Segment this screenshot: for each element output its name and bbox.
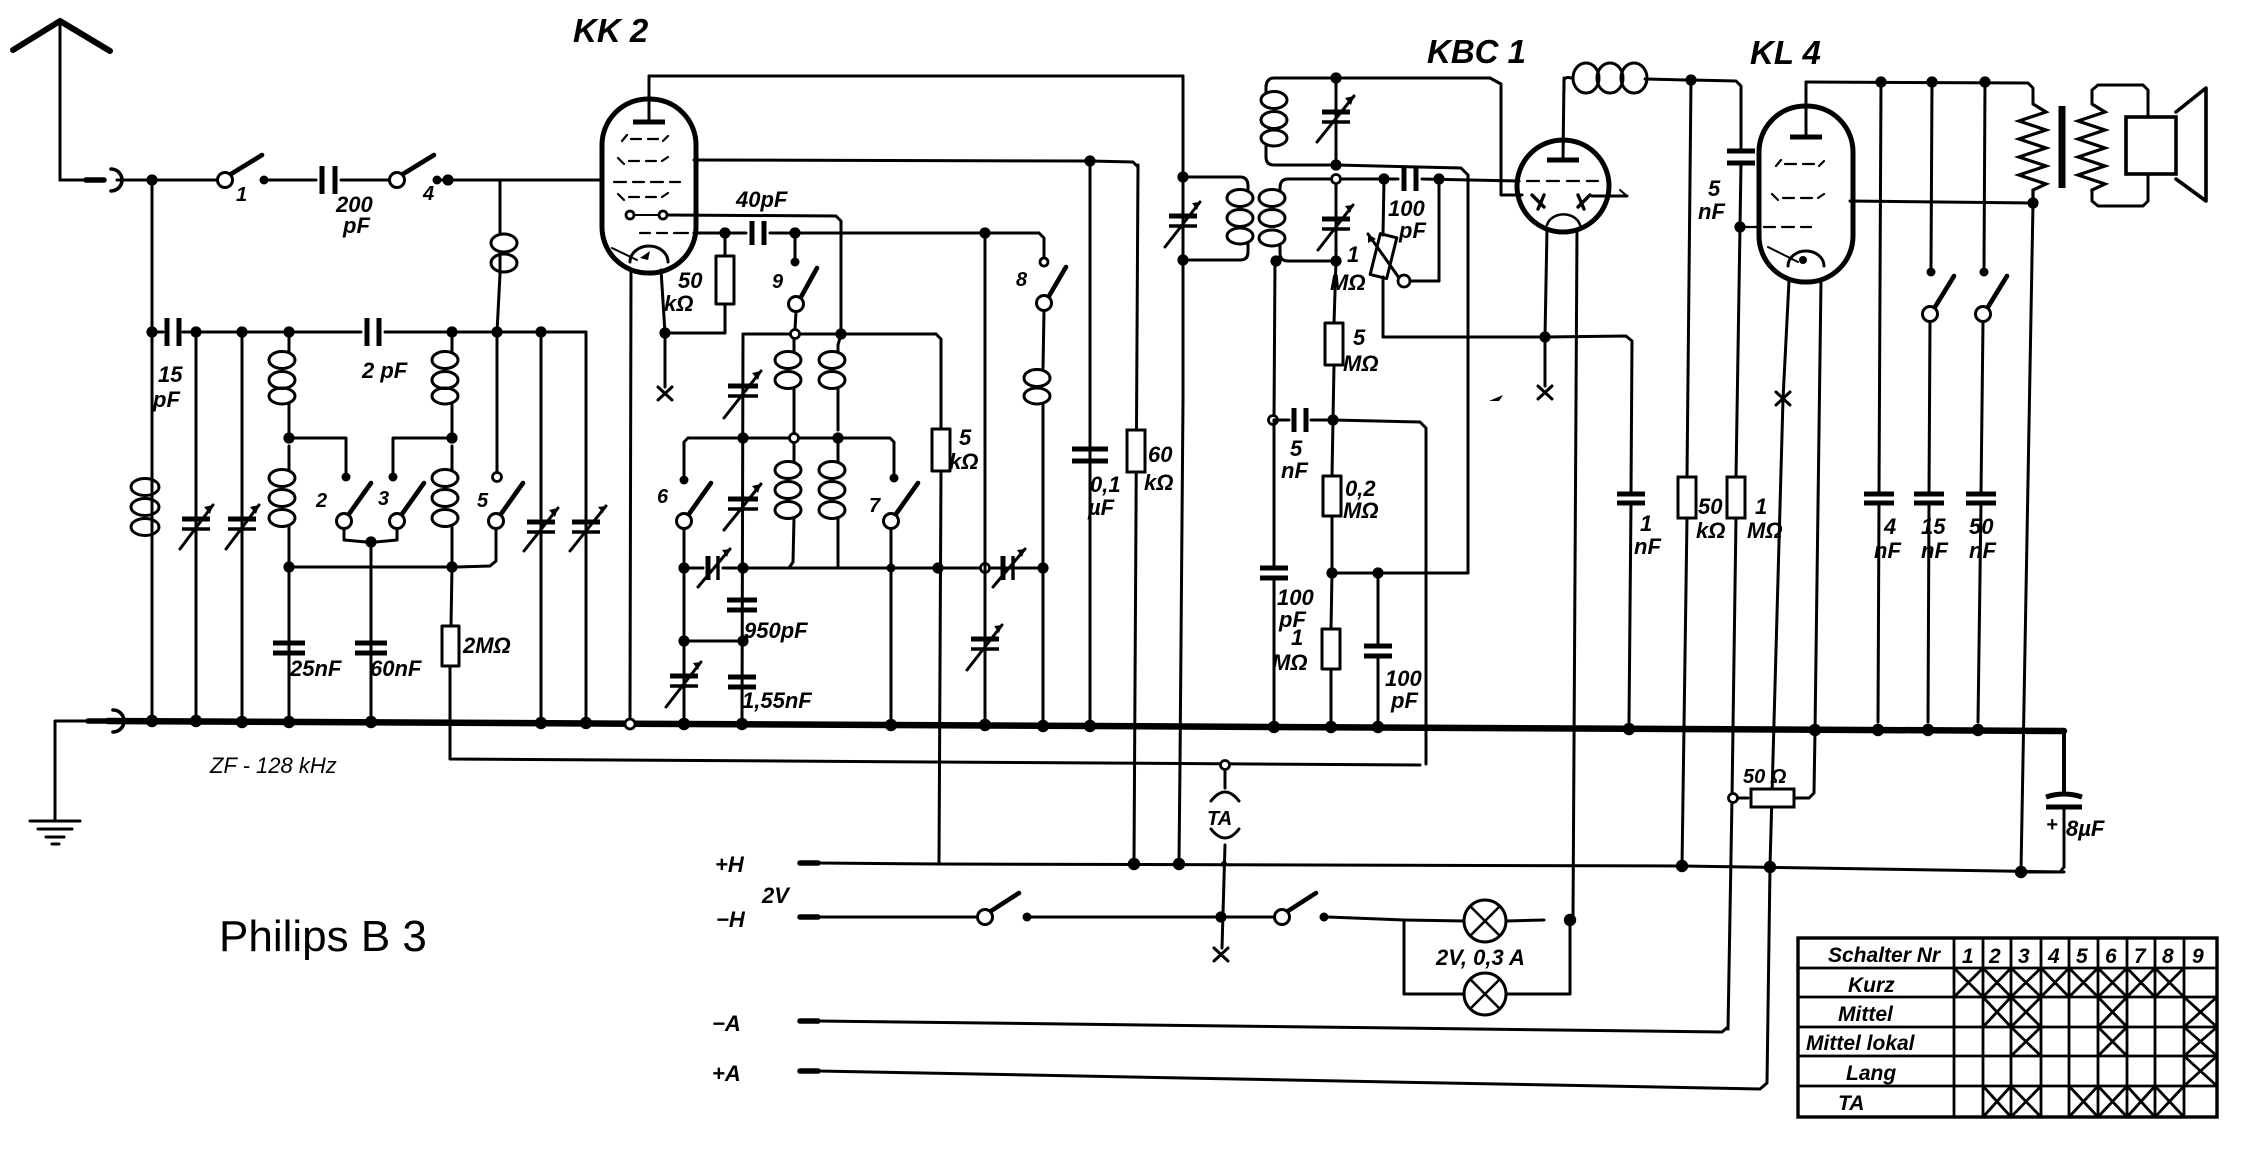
resistor 5MOhm bbox=[1325, 261, 1379, 420]
svg-text:−H: −H bbox=[716, 907, 746, 932]
svg-text:8: 8 bbox=[2162, 945, 2174, 968]
svg-text:950pF: 950pF bbox=[744, 618, 808, 643]
node 50k top bbox=[719, 227, 730, 238]
wire 5nF row to x1426 bbox=[1311, 420, 1426, 764]
resistor 50kOhm bbox=[664, 233, 734, 333]
antenna connector plug bbox=[86, 169, 122, 191]
svg-text:9: 9 bbox=[2192, 945, 2204, 968]
svg-text:2: 2 bbox=[315, 490, 327, 512]
svg-text:MΩ: MΩ bbox=[1343, 498, 1379, 523]
node rail x1985 bbox=[1979, 76, 1990, 87]
wire KL4 anode row bbox=[1850, 201, 2033, 203]
wire tap L3 to switch3 contact bbox=[393, 438, 452, 473]
coil oscillator 1 on x794 bbox=[775, 339, 801, 568]
variable capacitor IF2 bbox=[1317, 78, 1354, 165]
svg-text:Kurz: Kurz bbox=[1848, 974, 1895, 997]
variable capacitor on x242 bbox=[226, 505, 259, 549]
wire antenna to connector bbox=[60, 179, 103, 182]
svg-text:+: + bbox=[2046, 814, 2058, 836]
svg-text:9: 9 bbox=[772, 271, 784, 293]
table X marks TA bbox=[1983, 1086, 2184, 1117]
svg-text:15: 15 bbox=[158, 362, 183, 387]
capacitor 0.1uF bbox=[1072, 449, 1121, 520]
svg-text:50: 50 bbox=[1969, 514, 1994, 539]
variable capacitor osc 2 on x743 bbox=[724, 484, 761, 530]
svg-text:3: 3 bbox=[2018, 945, 2030, 968]
svg-text:pF: pF bbox=[1398, 218, 1426, 243]
svg-text:8µF: 8µF bbox=[2066, 816, 2105, 841]
wire -A rail bbox=[800, 1021, 1728, 1032]
node antenna line junction bbox=[146, 174, 157, 185]
svg-text:25nF: 25nF bbox=[289, 656, 342, 681]
wire secondary to speaker top bbox=[2092, 85, 2148, 117]
node x152 top of filter row bbox=[146, 326, 157, 337]
resistor 0.2MOhm bbox=[1323, 420, 1379, 573]
wire IF2 bottom edge to x1468 bbox=[1336, 165, 1468, 573]
svg-text:5: 5 bbox=[959, 425, 972, 450]
node row568 x1043 bbox=[1037, 562, 1048, 573]
svg-text:40pF: 40pF bbox=[735, 187, 788, 212]
coil oscillator 2 on x838 bbox=[819, 334, 845, 568]
svg-text:4: 4 bbox=[2047, 945, 2060, 968]
node L3 tap bbox=[446, 432, 457, 443]
connector TA bbox=[1207, 761, 1239, 949]
svg-text:+A: +A bbox=[712, 1061, 741, 1086]
svg-text:Mittel: Mittel bbox=[1838, 1003, 1894, 1026]
wire vertical x242 bbox=[241, 332, 244, 722]
output transformer core bbox=[2059, 106, 2066, 188]
svg-text:pF: pF bbox=[152, 387, 180, 412]
wire KBC1 cathode left leg bbox=[1545, 229, 1547, 337]
svg-text:8: 8 bbox=[1016, 269, 1028, 291]
node lamp junction bbox=[1564, 914, 1576, 926]
IF transformer secondary coil bbox=[1259, 179, 1331, 261]
capacitor 100pF AVC right bbox=[1364, 573, 1422, 722]
tube KBC1 bbox=[1517, 78, 1627, 232]
lamp 2 bbox=[1404, 973, 1570, 1015]
wire row y334 bbox=[743, 334, 941, 429]
bus junction dots bbox=[146, 715, 1984, 736]
node row332 junctions bbox=[190, 326, 546, 337]
capacitor 60nF bbox=[355, 643, 422, 681]
svg-text:50: 50 bbox=[678, 268, 703, 293]
svg-text:nF: nF bbox=[1921, 538, 1948, 563]
wire -H rail left bbox=[800, 914, 977, 920]
switch -H 1 bbox=[978, 893, 1032, 925]
capacitor 5nF AVC bbox=[1281, 408, 1308, 483]
table X marks Kurz bbox=[1954, 968, 2184, 997]
coil L1 on x152 bbox=[131, 479, 159, 536]
svg-text:nF: nF bbox=[1281, 458, 1308, 483]
ground bus bbox=[108, 721, 2064, 731]
resistor 1MOhm AVC bbox=[1272, 573, 1340, 722]
wire KL4 filament right leg bbox=[1809, 281, 1821, 798]
wire lamp2 to lamp1 node bbox=[1569, 920, 1572, 994]
capacitor 15nF bbox=[1914, 494, 1948, 722]
switch 1 bbox=[218, 155, 269, 206]
node x743 row641 bbox=[737, 635, 748, 646]
svg-text:2MΩ: 2MΩ bbox=[462, 633, 511, 658]
wire row y567 bbox=[289, 566, 452, 569]
node x1183 IF top bbox=[1177, 171, 1188, 182]
svg-text:+H: +H bbox=[715, 852, 745, 877]
capacitor 5nF coupling bbox=[1698, 151, 1755, 227]
coil on switch8 line bbox=[1024, 370, 1050, 723]
switch 5 bbox=[457, 332, 523, 567]
variable capacitor IF secondary bbox=[1318, 184, 1353, 261]
wire 50k bottom to cathode node bbox=[665, 332, 725, 335]
node IF2 bottom bbox=[1330, 159, 1341, 170]
svg-text:KK 2: KK 2 bbox=[573, 12, 649, 49]
svg-text:nF: nF bbox=[1874, 538, 1901, 563]
wire switch1 to C200 bbox=[268, 179, 316, 182]
capacitor 100pF AVC left bbox=[1260, 420, 1314, 722]
switch table bbox=[1798, 938, 2217, 1117]
variable capacitor on x586 bbox=[570, 506, 606, 551]
coil L3 upper on x452 bbox=[432, 332, 458, 438]
svg-text:Mittel lokal: Mittel lokal bbox=[1806, 1032, 1916, 1055]
antenna bbox=[13, 21, 110, 180]
trimmer capacitor in row568 bbox=[698, 549, 730, 587]
wire switch6 line to 641 row bbox=[683, 568, 686, 722]
svg-text:kΩ: kΩ bbox=[949, 449, 978, 474]
capacitor 40pF bbox=[735, 187, 788, 245]
capacitor 200pF bbox=[322, 166, 373, 238]
IF transformer 2 coil bbox=[1261, 78, 1490, 165]
wire KBC1 grid row bbox=[1341, 179, 1519, 181]
table header text bbox=[1828, 944, 2204, 968]
variable capacitor on x684 lower bbox=[666, 662, 701, 707]
IF transformer primary coil bbox=[1183, 177, 1253, 260]
wire 40pF row y233 bbox=[770, 233, 1044, 258]
wire row y568 left segment bbox=[684, 567, 1043, 570]
switch 6 bbox=[657, 476, 711, 569]
coil L3 lower on x452 bbox=[432, 446, 458, 567]
svg-text:7: 7 bbox=[869, 495, 881, 517]
node 5nF row left bbox=[1269, 416, 1278, 425]
wire KK2 anode y161 bbox=[694, 160, 1090, 161]
table row labels bbox=[1806, 974, 1916, 1115]
svg-text:µF: µF bbox=[1087, 495, 1115, 520]
svg-text:2: 2 bbox=[1988, 945, 2001, 968]
capacitor 4nF bbox=[1864, 82, 1901, 722]
switch 4 bbox=[390, 155, 442, 205]
x mark TA bbox=[1214, 948, 1228, 961]
node 5nF row right bbox=[1327, 414, 1338, 425]
table X marks Mittel lokal bbox=[2011, 1027, 2217, 1056]
tube KK2 bbox=[602, 76, 696, 273]
svg-text:0,1: 0,1 bbox=[1090, 472, 1121, 497]
svg-text:TA: TA bbox=[1207, 808, 1232, 830]
node at 448 bbox=[442, 174, 453, 185]
lamp bracket bbox=[1403, 920, 1406, 994]
svg-text:5: 5 bbox=[1353, 325, 1366, 350]
wire C200 to switch 4 bbox=[341, 179, 390, 182]
svg-text:1: 1 bbox=[1347, 242, 1359, 267]
wire -H rail to lamps bbox=[1328, 917, 1404, 920]
svg-text:6: 6 bbox=[657, 486, 669, 508]
wire vertical antenna branch x152 bbox=[151, 180, 154, 722]
node 50 Ohm left open bbox=[1729, 794, 1738, 803]
svg-text:3: 3 bbox=[378, 488, 389, 510]
node IF2 top var cap bbox=[1330, 72, 1341, 83]
bus connector plug bbox=[88, 710, 124, 732]
wire anode drop to +H bbox=[2021, 203, 2033, 871]
tube KL4 bbox=[1745, 82, 1853, 282]
node var cap bottom bbox=[1330, 255, 1341, 266]
node KL4 grid bbox=[1734, 221, 1745, 232]
capacitor 1.55nF bbox=[728, 677, 812, 713]
wire anode corner to 60k line bbox=[1090, 161, 1138, 167]
variable capacitor osc 1 on x743 bbox=[724, 371, 761, 418]
node 100pF left bbox=[1378, 173, 1389, 184]
node row573 mid bbox=[1372, 567, 1383, 578]
wire grid-leak stub to x bbox=[664, 333, 667, 387]
wire KK2 filament to bus bbox=[630, 271, 631, 717]
coil L2 upper on x289 bbox=[269, 332, 295, 438]
wire switch4 to KK2 grid bbox=[441, 179, 603, 182]
small arrow mark bbox=[1489, 395, 1503, 401]
node x743 row568 bbox=[737, 562, 748, 573]
capacitor 50nF bbox=[1966, 494, 1996, 722]
node row568 x985 bbox=[981, 564, 990, 573]
capacitor 25nF bbox=[273, 643, 342, 681]
capacitor 15pF bbox=[152, 318, 183, 412]
svg-text:60: 60 bbox=[1148, 442, 1173, 467]
switch on 15nF line bbox=[1923, 82, 1955, 494]
wire vertical x1136 60k line bbox=[1134, 165, 1138, 862]
table X marks Mittel bbox=[1983, 997, 2217, 1027]
svg-text:nF: nF bbox=[1969, 538, 1996, 563]
wire -H rail mid bbox=[1031, 916, 1274, 919]
wire vertical x541 bbox=[540, 332, 543, 722]
output transformer secondary winding bbox=[2078, 104, 2105, 192]
svg-text:Philips B 3: Philips B 3 bbox=[219, 912, 427, 961]
node KBC1 grid row open bbox=[1332, 175, 1341, 184]
speaker bbox=[2126, 88, 2206, 201]
x mark KBC1 bbox=[1538, 386, 1552, 399]
wire +H rail bbox=[800, 863, 2064, 872]
wire KK2 g3 row y233 bbox=[694, 232, 746, 235]
wire bus end to 8uF bbox=[2062, 731, 2066, 793]
switch 3 bbox=[378, 473, 424, 529]
wire switch6 contact drop bbox=[684, 438, 688, 475]
output transformer primary winding bbox=[2019, 104, 2046, 203]
resistor 2MOhm bbox=[442, 567, 511, 666]
svg-text:Schalter Nr: Schalter Nr bbox=[1828, 944, 1942, 967]
wire 5nF row left segment bbox=[1274, 419, 1289, 422]
x mark KL4 bbox=[1776, 392, 1790, 405]
svg-text:60nF: 60nF bbox=[370, 656, 422, 681]
node TA to -H bbox=[1215, 911, 1226, 922]
wire KK2 top to x1183 bbox=[649, 75, 1183, 78]
wire +A rail bbox=[800, 867, 1770, 1089]
svg-text:kΩ: kΩ bbox=[664, 291, 693, 316]
svg-text:2V, 0,3 A: 2V, 0,3 A bbox=[1435, 945, 1525, 970]
variable capacitor on x196 bbox=[180, 505, 213, 549]
svg-text:6: 6 bbox=[2105, 945, 2117, 968]
svg-text:5: 5 bbox=[1708, 176, 1721, 201]
variable capacitor IF primary bbox=[1165, 202, 1200, 247]
node osc coil top bbox=[835, 328, 846, 339]
wire filter row corner to x586 bbox=[585, 332, 588, 722]
node x684 row641 bbox=[678, 635, 689, 646]
svg-text:50 Ω: 50 Ω bbox=[1743, 766, 1787, 788]
wire tap L2 to switch2 contact bbox=[289, 438, 346, 473]
resistor 60kOhm bbox=[1127, 430, 1173, 495]
svg-text:1: 1 bbox=[1291, 625, 1303, 650]
wire switch2 bottom to common bbox=[344, 529, 366, 542]
svg-text:KBC 1: KBC 1 bbox=[1427, 33, 1526, 70]
lamp 1 bbox=[1404, 900, 1544, 942]
node rail x1881 bbox=[1875, 76, 1886, 87]
capacitor 950pF bbox=[727, 600, 808, 643]
svg-text:kΩ: kΩ bbox=[1144, 470, 1173, 495]
svg-text:MΩ: MΩ bbox=[1272, 650, 1308, 675]
wire bus to ground bbox=[55, 721, 86, 820]
wire vertical x1090 0.1uF line bbox=[1089, 161, 1092, 722]
wire vertical x196 bbox=[195, 332, 198, 722]
svg-text:Lang: Lang bbox=[1846, 1062, 1896, 1085]
node cathode row bbox=[1539, 331, 1550, 342]
potentiometer 1MOhm bbox=[1330, 179, 1439, 337]
svg-text:nF: nF bbox=[1634, 534, 1661, 559]
resistor 50kOhm output bbox=[1678, 80, 1725, 866]
wire cathode row y337 bbox=[1383, 336, 1632, 494]
node rail x1932 bbox=[1926, 76, 1937, 87]
svg-text:1: 1 bbox=[1640, 511, 1652, 536]
resistor 5kOhm bbox=[932, 425, 978, 864]
switch -H 2 bbox=[1275, 893, 1329, 925]
node row567 ends bbox=[283, 561, 457, 572]
wire 2MOhm down through bus to AVC rail bbox=[450, 666, 1420, 765]
svg-text:nF: nF bbox=[1698, 199, 1725, 224]
node switch9 bottom junction bbox=[791, 330, 800, 339]
svg-text:pF: pF bbox=[342, 213, 370, 238]
resistor 1MOhm KL4 grid leak bbox=[1727, 227, 1783, 1029]
wire IF2 top edge to diode drop bbox=[1490, 78, 1522, 195]
node switch9 top bbox=[789, 227, 800, 238]
node x1183 IF bottom bbox=[1177, 254, 1188, 265]
svg-text:2 pF: 2 pF bbox=[361, 358, 408, 383]
wire common to 60nF bbox=[370, 542, 373, 722]
svg-text:MΩ: MΩ bbox=[1343, 351, 1379, 376]
wire KK2 screen y215 to osc coil bbox=[668, 215, 841, 334]
svg-text:pF: pF bbox=[1390, 688, 1418, 713]
svg-text:7: 7 bbox=[2134, 945, 2147, 968]
svg-text:1: 1 bbox=[1755, 494, 1767, 519]
wire filter row y332 bbox=[152, 331, 586, 334]
svg-text:ZF - 128 kHz: ZF - 128 kHz bbox=[209, 753, 337, 778]
node osc coil2 tap bbox=[832, 432, 843, 443]
svg-text:kΩ: kΩ bbox=[1696, 518, 1725, 543]
wire secondary to speaker bottom bbox=[2092, 174, 2148, 206]
wire L2 bottom to 25nF to bus bbox=[288, 567, 291, 722]
switch on 50nF line bbox=[1976, 82, 2008, 494]
svg-text:5: 5 bbox=[2076, 945, 2088, 968]
wire tap to switch7 contact bbox=[838, 438, 894, 474]
trimmer capacitor row568 right bbox=[993, 549, 1025, 587]
svg-text:−A: −A bbox=[712, 1011, 741, 1036]
wire row y641 bbox=[684, 640, 743, 643]
ground bbox=[30, 821, 80, 844]
x mark KK2 bbox=[658, 387, 672, 400]
choke coil bbox=[1564, 63, 1686, 93]
wire switch3 bottom to common bbox=[376, 529, 397, 542]
svg-text:4: 4 bbox=[1883, 514, 1896, 539]
node L2 tap bbox=[283, 432, 294, 443]
node x985 top bbox=[979, 227, 990, 238]
wire KBC1 filament right leg bbox=[1573, 230, 1577, 918]
svg-text:TA: TA bbox=[1838, 1092, 1864, 1115]
svg-text:1,55nF: 1,55nF bbox=[742, 688, 812, 713]
svg-text:1: 1 bbox=[1962, 945, 1974, 968]
wire vertical x743 padder chain bbox=[742, 334, 743, 722]
wire vertical x985 bbox=[984, 233, 987, 722]
node +H junctions bbox=[1128, 858, 2027, 878]
node switch7 row568 bbox=[887, 564, 896, 573]
node anode/0.1uF junction bbox=[1084, 155, 1095, 166]
node x743 row438 bbox=[737, 432, 748, 443]
svg-text:5: 5 bbox=[477, 490, 489, 512]
wire KL4 filament left leg bbox=[1770, 281, 1789, 866]
wire row y438 middle bbox=[743, 437, 789, 440]
svg-text:2V: 2V bbox=[761, 883, 791, 908]
wire KK2 cathode lead bbox=[661, 270, 665, 333]
resistor 50 Ohm bbox=[1739, 766, 1809, 807]
capacitor 100pF grid bbox=[1388, 167, 1426, 243]
variable capacitor on x985 bbox=[967, 625, 1002, 670]
node secondary bottom left bbox=[1270, 255, 1281, 266]
table X marks Lang bbox=[2184, 1056, 2217, 1086]
wire connector to switch 1 bbox=[117, 179, 218, 182]
capacitor 1nF bbox=[1617, 494, 1661, 722]
wire cathode x stub bbox=[1544, 337, 1547, 386]
node row573 left bbox=[1326, 567, 1337, 578]
svg-text:50: 50 bbox=[1698, 494, 1723, 519]
svg-text:15: 15 bbox=[1921, 514, 1946, 539]
node 100pF right bbox=[1433, 173, 1444, 184]
capacitor 8uF bbox=[2023, 794, 2105, 872]
svg-text:KL 4: KL 4 bbox=[1750, 34, 1821, 71]
node switch6 row568 bbox=[678, 562, 689, 573]
coil L2 lower on x289 bbox=[269, 446, 295, 567]
node switch 2/3 common bbox=[365, 536, 376, 547]
wire vertical x1183 IF ground line bbox=[1179, 76, 1183, 862]
wire row y438 left bbox=[688, 437, 743, 440]
node 5k row568 bbox=[932, 562, 943, 573]
node KL4 anode / transformer bbox=[2027, 197, 2038, 208]
switch 2 bbox=[315, 473, 371, 529]
wire choke to 5nF corner bbox=[1691, 80, 1741, 150]
switch 7 bbox=[869, 474, 918, 723]
variable capacitor on x541 bbox=[524, 508, 558, 551]
wire row y573 bbox=[1332, 572, 1468, 575]
switch 9 bbox=[772, 238, 817, 329]
svg-text:MΩ: MΩ bbox=[1747, 518, 1783, 543]
capacitor 2pF bbox=[361, 318, 408, 383]
svg-text:1: 1 bbox=[236, 184, 247, 206]
wire KL4 top lead to rail bbox=[1806, 82, 2033, 104]
node KK2 cathode bbox=[659, 327, 670, 338]
svg-text:4: 4 bbox=[422, 183, 434, 205]
coupling coil antenna bbox=[491, 180, 517, 332]
node choke right bbox=[1685, 74, 1696, 85]
wire secondary left drop to 5nF row bbox=[1274, 261, 1275, 420]
switch 8 bbox=[1016, 258, 1066, 368]
